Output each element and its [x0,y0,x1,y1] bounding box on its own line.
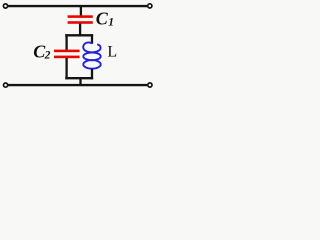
wire C1 to tank top [79,24,81,37]
svg-text:1: 1 [108,17,114,29]
svg-text:C: C [96,9,109,29]
wire tank right upper [91,34,93,44]
wire bottom rail [8,84,147,86]
wire top rail to C1 [80,6,82,16]
terminal top-right [148,4,152,8]
terminal bottom-right [148,83,152,87]
svg-text:2: 2 [44,50,51,62]
terminal top-left [3,4,7,8]
wire tank right lower [91,69,93,79]
wire tank bottom [65,77,93,79]
wire tank left lower [65,58,67,79]
terminal bottom-left [4,83,8,87]
wire tank bottom to bottom rail [79,78,81,85]
wire tank left upper [65,34,67,50]
wire top rail [8,5,147,7]
inductor L [83,42,101,68]
wire tank top [65,34,93,36]
svg-text:L: L [107,44,117,61]
capacitor C1 [68,15,93,24]
capacitor C2 [54,50,80,59]
background [0,0,156,92]
